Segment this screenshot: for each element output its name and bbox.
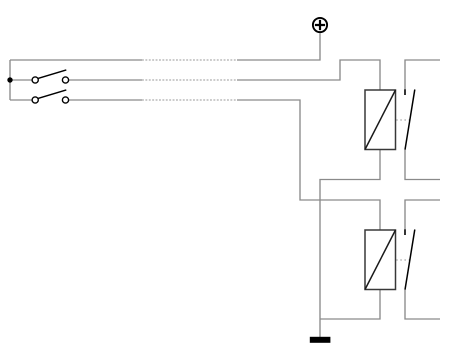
node junction dot bbox=[7, 77, 12, 82]
ground bbox=[310, 337, 331, 343]
wire middle line to relay coil K1 top bbox=[237, 60, 380, 90]
wire coil K2 bottom to ground rail bbox=[320, 290, 380, 320]
mechanical link K1 (dotted) bbox=[396, 119, 410, 121]
wire left rail vertical bbox=[9, 60, 11, 100]
wire middle line from rail to switch S1 bbox=[10, 79, 32, 81]
positive supply terminal bbox=[313, 18, 327, 32]
wire bottom line dotted bbox=[142, 99, 237, 101]
relay contact J1 bbox=[405, 89, 415, 150]
wire middle line dotted bbox=[142, 79, 237, 81]
wire contact J1 top stub bbox=[405, 60, 440, 90]
switch S1 bbox=[32, 70, 68, 83]
switch S2 bbox=[32, 90, 68, 103]
relay coil K1 bbox=[365, 90, 396, 150]
wire top line solid right to plus terminal bbox=[237, 33, 320, 61]
wire coil K1 bottom to ground rail bbox=[320, 150, 380, 338]
wire middle line from switch S1 bbox=[69, 79, 142, 81]
mechanical link K2 (dotted) bbox=[396, 259, 410, 261]
wire bottom line from rail to switch S2 bbox=[10, 99, 32, 101]
wire contact J2 bottom stub bbox=[405, 290, 440, 319]
wire top line solid left bbox=[10, 59, 142, 61]
wire bottom line to relay coil K2 top bbox=[237, 100, 380, 230]
wire top line dotted middle bbox=[142, 59, 237, 61]
relay coil K2 bbox=[365, 230, 396, 290]
wire contact J2 top stub bbox=[405, 200, 440, 230]
wire contact J1 bottom stub bbox=[405, 150, 440, 180]
relay contact J2 bbox=[405, 229, 415, 289]
wire bottom line from switch S2 bbox=[69, 99, 142, 101]
